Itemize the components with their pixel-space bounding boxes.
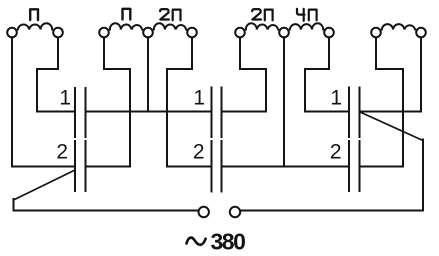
wire T4 to node rail [147,38,149,112]
label 2n (group 3 left) [252,9,272,20]
label 2n (group 2 right) [160,9,180,20]
wire T3 jog to capacitor C2a right plate [87,38,131,167]
AC sine symbol [187,238,206,245]
terminal circle G2 middle [143,28,153,38]
wire T5 jog to capacitor C2b left plate [167,38,211,167]
capacitor C1b plates [212,88,222,138]
wire bottom-right rail to source [241,140,423,211]
inductor winding 2n (group 3 left) [246,23,278,29]
wire T7 to node rail [283,38,285,167]
label 4n (group 3 right) [297,9,317,21]
wire rail C1a right plate to C1b left plate [87,111,211,113]
terminal circle G1 left [7,28,17,38]
source terminal circle right [230,207,240,217]
wire T1 to capacitor C2a left plate [12,38,74,167]
label n (group 1) [30,9,38,20]
terminal circle G4 left [371,28,381,38]
source terminal circle left [199,207,209,217]
inductor winding 4n (group 3 right) [290,23,323,29]
capacitor C2b plates [212,141,222,192]
svg-text:1: 1 [59,87,71,110]
wire T9 jog to capacitor C2c right plate [361,38,404,167]
terminal circle G2 right [187,28,197,38]
terminal circle G3 left [235,28,245,38]
svg-text:2: 2 [56,141,68,164]
label n (group 2 left) [123,9,131,20]
wire right diagonal from C1c to source right terminal [361,113,423,141]
capacitor C1a plates [75,88,86,137]
inductor winding 2n (group 2 right) [154,23,186,29]
svg-text:2: 2 [193,141,205,164]
capacitor C1c plates [349,88,360,138]
wire T2 jog to capacitor C1a left plate [37,38,74,112]
svg-text:1: 1 [193,87,205,110]
terminal circle G3 middle [279,28,289,38]
svg-text:1: 1 [330,87,342,110]
wire rail C2b right plate to C2c left plate [223,166,349,168]
terminal circle G3 right [324,28,334,38]
wire T10 to capacitor C1c right plate [361,38,422,112]
terminal circle G4 right [416,28,426,38]
wire T6 jog to capacitor C1b right plate [223,38,267,112]
inductor winding (group 4) [382,24,415,29]
wire left diagonal from C2a to source left terminal [14,171,75,201]
inductor winding n (group 1) [18,23,52,29]
svg-text:2: 2 [330,141,342,164]
terminal circle G1 right [53,28,63,38]
capacitor C2a plates [75,141,86,191]
terminal circle G2 left [99,28,109,38]
svg-text:380: 380 [211,229,246,255]
wire T8 jog to capacitor C1c left plate [305,38,348,112]
inductor winding n (group 2 left) [110,23,142,29]
capacitor C2c plates [349,141,360,191]
wire bottom-left rail to source [14,199,198,211]
